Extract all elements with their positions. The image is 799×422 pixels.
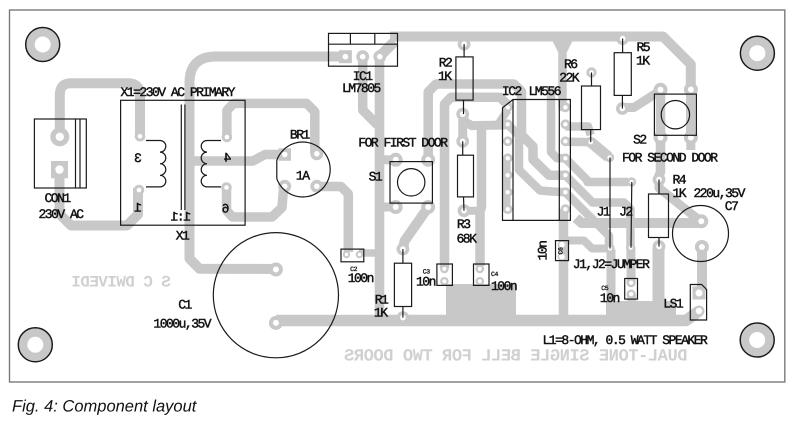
R3 pad bottom: [458, 204, 471, 217]
svg-text:C4: C4: [491, 271, 499, 278]
J2 pad bottom: [626, 243, 635, 252]
wire J2 bottom to C5 top: [626, 248, 635, 282]
wire IC2 pin right3 to R6 bottom pad: [565, 138, 590, 147]
svg-text:FOR SECOND DOOR: FOR SECOND DOOR: [622, 150, 718, 165]
R4 pad top: [653, 173, 666, 186]
transformer X1 primary winding: [146, 141, 166, 187]
resistor R4 body and leads: [649, 180, 669, 247]
R6 pad top: [586, 67, 596, 77]
wire top +V rail to S2 pad TR: [390, 37, 691, 89]
S2 pad BR: [684, 131, 698, 145]
transformer pad 1: [134, 185, 145, 196]
svg-text:10n: 10n: [536, 241, 551, 261]
svg-text:S2: S2: [633, 133, 646, 148]
svg-text:3: 3: [135, 151, 142, 166]
wire branch diagonal to IC2 pin left1: [497, 110, 508, 126]
BR1 pad TR: [310, 147, 323, 160]
capacitor C6 body: [556, 241, 569, 261]
C7 pad -: [695, 240, 709, 254]
svg-text:LM7805: LM7805: [342, 81, 381, 96]
IC1 body: [329, 33, 398, 66]
S2 pad BL: [654, 131, 668, 145]
transformer X1 body: [121, 100, 246, 225]
wire IC1 pin2 down merging: [363, 58, 378, 125]
mounting hole bottom-left: [18, 328, 52, 362]
capacitor C7 body: [673, 206, 729, 262]
wire band from R2 bottom corner down to C4 top pad: [480, 127, 482, 266]
svg-text:BR1: BR1: [290, 128, 311, 143]
R6 pad bottom: [586, 137, 596, 147]
R1 pad top: [397, 243, 410, 256]
CON1 pad 2 square: [51, 161, 68, 178]
R5 pad top: [616, 32, 629, 45]
wire IC2 pin right6 to J1 bottom: [565, 192, 609, 249]
resistor R5 body and leads: [614, 39, 631, 109]
wire S1 pad BR to R1 top: [403, 208, 428, 250]
capacitor C5 body: [625, 279, 638, 300]
BR1 pad BL: [278, 180, 291, 193]
wire transformer pin 6 to BR1 pad BL: [227, 185, 284, 217]
C5 pad top: [627, 278, 636, 287]
svg-text:J1,J2=JUMPER: J1,J2=JUMPER: [573, 257, 650, 272]
wire R6 bottom to J1 top: [591, 142, 609, 157]
wire IC2 pin right5 to J2 bottom: [565, 175, 630, 248]
wire BR1 + pad BR to C2 left pad: [317, 187, 349, 253]
R4 pad bottom: [653, 240, 666, 253]
wire C5 bottom to ground blob: [627, 294, 636, 307]
wire C3 top band B to IC2 pin left1: [445, 97, 508, 268]
C6 pad top: [558, 240, 567, 249]
IC2 pads left column: [503, 102, 513, 214]
C4 pad bottom: [476, 277, 485, 286]
pushbutton S2 body: [654, 94, 696, 135]
resistor R1 body and leads: [394, 249, 411, 318]
wire IC1 pin1 to transformer center vertical and C1 + pad: [190, 57, 346, 270]
jumper J2 wire: [630, 182, 633, 248]
svg-text:10n: 10n: [600, 291, 620, 306]
ground rail bottom: [276, 311, 699, 321]
wire IC2 interior pin left2 fan to pin right6: [508, 124, 565, 192]
transformer pad 3: [135, 131, 146, 142]
mounting hole top-right: [740, 36, 774, 70]
wire IC2 pin right7 to ground rail: [559, 209, 569, 318]
svg-text:LM556: LM556: [529, 84, 561, 99]
IC1 pad 3: [373, 50, 386, 63]
wire C7 + horizontal: [576, 218, 699, 223]
svg-text:1000u,35V: 1000u,35V: [153, 316, 211, 331]
C7 pad +: [694, 214, 708, 228]
wire IC1 pin3 down to S1 left side and ground rail: [375, 58, 385, 316]
LS1 pad bottom: [694, 306, 705, 317]
svg-text:DUAL-TONE SINGLE BELL FOR TWO: DUAL-TONE SINGLE BELL FOR TWO DOORS: [344, 348, 687, 367]
svg-text:X1=230V AC PRIMARY: X1=230V AC PRIMARY: [121, 85, 236, 100]
wire IC1 pin3 to +V rail: [381, 42, 395, 56]
C1 pad +: [269, 263, 283, 277]
svg-text:S C DWIVEDI: S C DWIVEDI: [72, 274, 171, 292]
C3 pad top: [440, 265, 449, 274]
S2 pad TL: [654, 83, 668, 97]
svg-text:1K: 1K: [438, 69, 452, 84]
svg-text:L1=8-OHM, 0.5 WATT SPEAKER: L1=8-OHM, 0.5 WATT SPEAKER: [543, 333, 709, 348]
wire R3 bottom stub to C4 vertical: [464, 207, 481, 215]
R2 pad bottom: [456, 108, 469, 121]
C2 pad right: [356, 251, 363, 258]
svg-text:100n: 100n: [491, 279, 517, 294]
wire R5 bottom to S2 pad TL: [622, 91, 660, 108]
resistor R2 body and leads: [456, 44, 473, 114]
svg-text:IC2: IC2: [502, 84, 522, 99]
transformer pad 6: [221, 182, 232, 193]
R5 pad bottom: [616, 102, 629, 115]
svg-text:FOR FIRST DOOR: FOR FIRST DOOR: [358, 136, 448, 151]
wire C6 vertical to J1 bottom pad: [566, 241, 607, 249]
resistor R3 body and leads: [458, 141, 474, 210]
wire R4 top to C7 + pad diagonal: [659, 181, 701, 221]
wire IC2 interior vertical entering top to pin right4: [551, 86, 564, 158]
BR1 pad BR: [310, 180, 323, 193]
wire IC2 pin right4 to J2 top: [565, 158, 628, 182]
wire J1 bottom to ground blob: [607, 250, 616, 308]
wire stub to S1 pad BL: [380, 203, 392, 212]
transformer X1 secondary winding: [201, 141, 221, 187]
wire CON1 top pad to transformer pin 3: [60, 83, 140, 139]
CON1 pad 1: [50, 127, 69, 146]
J1 pad top: [605, 153, 614, 162]
capacitor C4 body: [474, 264, 490, 285]
svg-text:1K: 1K: [636, 54, 650, 69]
LS1 pad top square: [693, 287, 706, 300]
svg-text:LS1: LS1: [663, 296, 684, 311]
IC2 pads right column: [561, 102, 571, 214]
svg-text:Fig. 4: Component layout: Fig. 4: Component layout: [12, 398, 198, 416]
S1 pad BR: [421, 200, 435, 214]
C3 pad bottom: [440, 277, 449, 286]
wire S2 pad BL to R4 top: [659, 138, 661, 181]
svg-text:C6: C6: [558, 247, 565, 255]
wire S2 pad TR to pad BR through body: [686, 90, 696, 138]
wire IC2 interior pin left4 to pin left7: [502, 158, 511, 209]
svg-text:1:1: 1:1: [170, 210, 191, 225]
wire R2 bottom to IC2 pin left2: [463, 115, 506, 126]
svg-text:220u,35V: 220u,35V: [694, 186, 746, 201]
transformer X1 core lines: [181, 105, 185, 211]
C4 pad top: [476, 265, 485, 274]
connector CON1: [34, 119, 86, 188]
svg-text:C1: C1: [178, 298, 192, 313]
wire S2 pad TL to pad BL through body: [656, 90, 666, 138]
wire CON1 bottom pad to transformer pin 1: [60, 167, 139, 226]
wire branch to BR1 AC pad TL: [190, 155, 284, 162]
svg-text:100n: 100n: [348, 271, 374, 286]
pushbutton S1 body: [390, 162, 432, 204]
IC1 pad 2: [356, 50, 369, 63]
wire transformer pin 4 to BR1 AC pad TR: [227, 103, 315, 153]
svg-text:22K: 22K: [559, 70, 580, 85]
wire R4 bottom to ground blob: [653, 248, 665, 308]
wire rail branch taper: [548, 32, 577, 52]
BR1 pad TL square: [279, 148, 292, 161]
wire rail branch down to IC2 pin right1: [563, 40, 566, 107]
capacitor C1 body: [213, 233, 338, 358]
svg-text:CON1: CON1: [45, 191, 72, 206]
wire stub below S2 pad BR: [686, 138, 695, 151]
svg-text:6: 6: [222, 201, 229, 216]
S1 pad TL: [389, 153, 403, 167]
svg-text:C7: C7: [725, 199, 738, 214]
C6 pad bottom: [558, 252, 567, 261]
S2 pad TR: [684, 83, 698, 97]
IC1 pad 1 square: [339, 50, 352, 63]
svg-text:R3: R3: [457, 217, 470, 232]
svg-text:1K: 1K: [673, 186, 687, 201]
wire S1 pad TR band A to IC2 interior: [428, 84, 564, 175]
capacitor C3 body: [437, 264, 453, 285]
J1 pad bottom: [605, 244, 614, 253]
mounting hole top-left: [26, 28, 60, 62]
svg-text:1K: 1K: [374, 305, 388, 320]
resistor R6 body and leads: [582, 73, 601, 143]
jumper J1 wire: [609, 158, 611, 249]
svg-text:68K: 68K: [457, 232, 478, 247]
wire stub to S1 pad TL: [380, 155, 392, 164]
capacitor C2 body: [341, 249, 364, 262]
R3 pad top: [456, 135, 469, 148]
transformer pad 4: [222, 132, 233, 143]
svg-text:1A: 1A: [296, 169, 310, 184]
wire R2 bottom to R3 top: [458, 114, 467, 141]
S1 pad TR: [421, 153, 435, 167]
svg-text:X1: X1: [176, 228, 190, 243]
ground blob center: [446, 284, 516, 326]
svg-text:J1: J1: [597, 205, 611, 220]
wire IC2 pin right2 to R6 bottom: [565, 127, 590, 136]
C5 pad bottom: [627, 290, 636, 299]
svg-text:10n: 10n: [416, 275, 436, 290]
IC2 body DIP14: [503, 100, 571, 221]
R1 pad bottom: [397, 311, 410, 324]
svg-text:230V AC: 230V AC: [39, 207, 85, 222]
wire C2 right pad to S1 trace: [359, 249, 380, 257]
C2 pad left: [343, 251, 350, 258]
J2 pad top: [627, 177, 636, 186]
bridge rectifier BR1 body: [277, 142, 330, 197]
C1 pad -: [269, 316, 283, 330]
svg-text:S1: S1: [369, 169, 383, 184]
R2 pad top: [458, 38, 471, 51]
ground blob right: [606, 301, 676, 326]
mounting hole bottom-right: [740, 323, 774, 357]
speaker connector LS1 body: [690, 285, 706, 321]
S1 pad BL: [389, 200, 403, 214]
wire C7 - pad to LS1 top pad: [699, 247, 702, 293]
svg-text:J2: J2: [619, 205, 632, 220]
